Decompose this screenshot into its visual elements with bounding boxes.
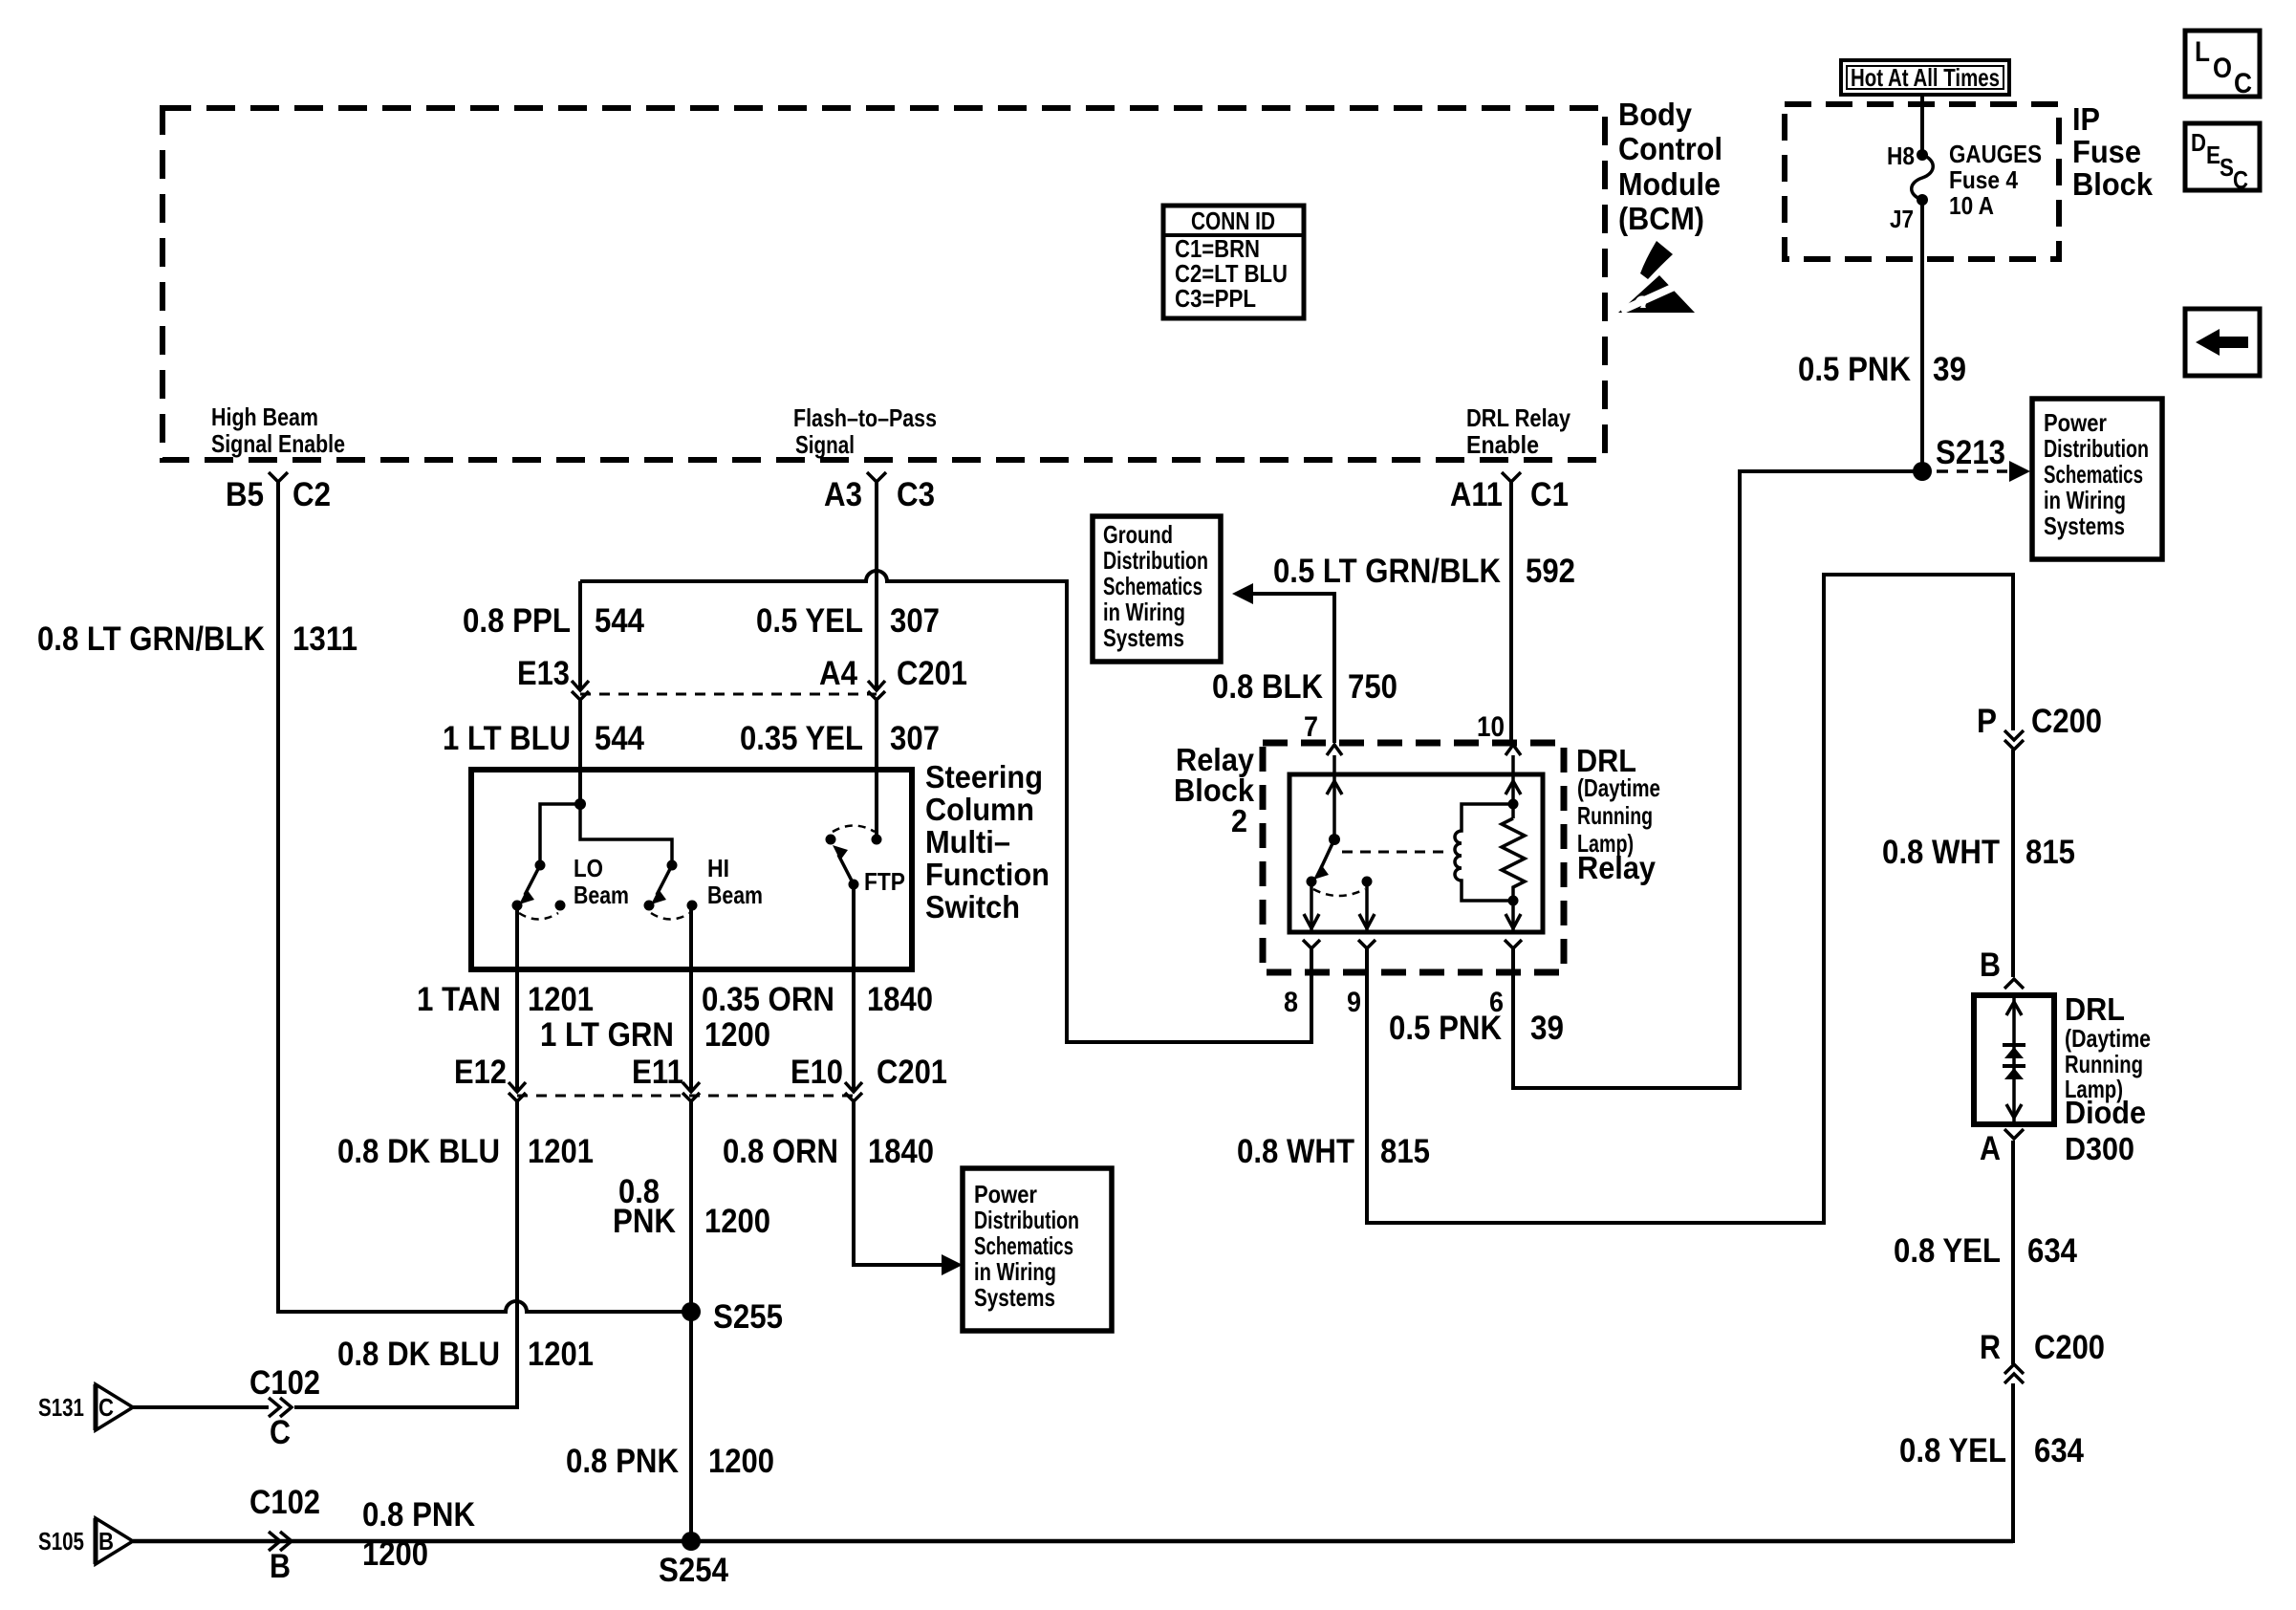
svg-text:1200: 1200 <box>362 1535 428 1573</box>
svg-text:0.35 ORN: 0.35 ORN <box>702 981 834 1018</box>
svg-text:1200: 1200 <box>704 1203 770 1240</box>
label 0.35 ORN 1840 <box>702 981 933 1018</box>
wire 0.8 PPL 544 (to E13) <box>578 581 582 690</box>
svg-text:S213: S213 <box>1936 434 2005 471</box>
svg-text:B: B <box>98 1527 114 1556</box>
label DRL (Daytime Running Lamp) Relay <box>1576 743 1660 885</box>
svg-text:1 LT GRN: 1 LT GRN <box>540 1016 674 1054</box>
wire steering column feed (y608 horizontal to relay pin 8) <box>580 571 1313 1042</box>
svg-text:C102: C102 <box>249 1484 320 1521</box>
svg-text:Function: Function <box>925 857 1050 892</box>
wire 0.5 PNK 39 (fuse to S213) <box>1920 200 1924 471</box>
label IP Fuse Block <box>2072 101 2154 202</box>
svg-text:634: 634 <box>2027 1232 2077 1270</box>
label 0.8 WHT 815 (left) <box>1237 1133 1430 1170</box>
svg-text:544: 544 <box>595 602 644 640</box>
svg-text:A11: A11 <box>1450 476 1503 513</box>
svg-text:0.8 YEL: 0.8 YEL <box>1894 1232 2001 1270</box>
svg-text:C: C <box>270 1414 291 1451</box>
switch HI Beam <box>580 804 763 920</box>
svg-text:E12: E12 <box>454 1054 507 1091</box>
svg-text:LO: LO <box>574 854 603 882</box>
svg-text:DRL: DRL <box>2065 991 2125 1027</box>
svg-text:(BCM): (BCM) <box>1618 201 1704 236</box>
pin 7 <box>1304 711 1342 755</box>
svg-text:1840: 1840 <box>868 1133 934 1170</box>
svg-text:0.8 YEL: 0.8 YEL <box>1899 1432 2006 1469</box>
connector P C200 <box>1977 703 2102 750</box>
svg-text:Body: Body <box>1618 97 1693 132</box>
svg-text:Multi–: Multi– <box>925 824 1010 859</box>
label 0.8 BLK 750 <box>1212 668 1397 706</box>
label 0.8 WHT 815 (right) <box>1882 834 2075 871</box>
connector B5 C2 <box>226 472 331 513</box>
svg-text:0.8 DK BLU: 0.8 DK BLU <box>337 1133 500 1170</box>
connector A3 C3 <box>824 472 935 513</box>
wire 0.8 LT GRN/BLK 1311 (B5 to S255) <box>278 482 682 1312</box>
svg-text:1840: 1840 <box>867 981 933 1018</box>
svg-text:750: 750 <box>1348 668 1397 706</box>
svg-text:C200: C200 <box>2031 703 2102 740</box>
svg-text:1200: 1200 <box>704 1016 770 1054</box>
svg-text:B: B <box>1980 946 2001 984</box>
connector R C200 <box>1980 1329 2105 1383</box>
wire 0.8 YEL 634 (A to R C200) <box>2011 1141 2015 1364</box>
wire 0.8 YEL 634 (C200 to main feed) <box>2011 1383 2015 1543</box>
svg-text:C: C <box>2234 68 2252 99</box>
switch LO Beam <box>512 798 630 920</box>
svg-text:C200: C200 <box>2034 1329 2105 1366</box>
svg-text:0.5 LT GRN/BLK: 0.5 LT GRN/BLK <box>1273 553 1501 590</box>
wire 0.8 WHT 815 (P to diode B) <box>2011 750 2015 977</box>
svg-text:39: 39 <box>1933 351 1966 388</box>
svg-text:Distribution: Distribution <box>974 1206 1079 1234</box>
svg-text:8: 8 <box>1284 987 1298 1018</box>
wire 0.8 PNK 1200 (E11 to S255) <box>689 1101 693 1312</box>
svg-text:S105: S105 <box>38 1527 84 1556</box>
svg-text:C3=PPL: C3=PPL <box>1175 284 1256 313</box>
svg-text:E: E <box>2206 141 2220 169</box>
connector C102 B <box>249 1484 320 1585</box>
relay pin 8 <box>1284 881 1320 1018</box>
svg-text:HI: HI <box>707 854 729 882</box>
svg-text:C: C <box>98 1393 114 1422</box>
svg-text:Power: Power <box>974 1180 1037 1208</box>
wire 0.8 ORN 1840 (E10 to power distribution) <box>854 1101 942 1265</box>
svg-text:Systems: Systems <box>1103 623 1184 652</box>
svg-text:Schematics: Schematics <box>2044 460 2143 489</box>
relay block dashed box <box>1263 743 1564 972</box>
svg-text:E10: E10 <box>791 1054 843 1091</box>
DRL diode D300 box <box>1974 995 2054 1124</box>
svg-text:S: S <box>2220 153 2234 182</box>
svg-text:Systems: Systems <box>2044 511 2125 540</box>
connector row C201 (E12 / E11 / E10) <box>454 1054 947 1101</box>
svg-text:B5: B5 <box>226 476 264 513</box>
label 0.8 DK BLU 1201 (second) <box>337 1336 594 1373</box>
svg-text:10: 10 <box>1477 711 1505 743</box>
wire 0.5 YEL 307 (A3 to C201) <box>875 482 878 690</box>
svg-text:Systems: Systems <box>974 1283 1055 1312</box>
wire C102 to S131 <box>133 1405 269 1409</box>
pin 10 <box>1477 711 1521 755</box>
svg-text:1201: 1201 <box>528 1133 594 1170</box>
svg-text:Steering: Steering <box>925 759 1043 794</box>
relay resistor <box>1502 755 1525 932</box>
terminal B <box>1980 946 2024 989</box>
label 0.8 ORN 1840 <box>723 1133 934 1170</box>
node Flash-to-Pass Signal <box>793 403 937 459</box>
svg-text:1311: 1311 <box>292 620 357 658</box>
svg-text:Schematics: Schematics <box>1103 572 1202 600</box>
svg-text:C2: C2 <box>292 476 331 513</box>
svg-text:0.35 YEL: 0.35 YEL <box>740 720 863 757</box>
svg-text:Column: Column <box>925 792 1034 827</box>
svg-text:2: 2 <box>1231 803 1247 838</box>
svg-text:0.8 LT GRN/BLK: 0.8 LT GRN/BLK <box>37 620 265 658</box>
svg-text:S255: S255 <box>713 1298 783 1336</box>
label 0.8 DK BLU 1201 <box>337 1133 594 1170</box>
dashed arrow S213 to power distribution <box>1937 461 2030 482</box>
relay pin 9 <box>1347 881 1375 1018</box>
svg-text:Schematics: Schematics <box>974 1231 1073 1260</box>
wire fuse feed <box>1920 95 1924 155</box>
connector A11 C1 <box>1450 472 1569 513</box>
Power Distribution Schematics box (middle) <box>963 1168 1112 1331</box>
svg-text:Fuse 4: Fuse 4 <box>1949 165 2018 194</box>
svg-text:R: R <box>1980 1329 2001 1366</box>
svg-text:0.8 WHT: 0.8 WHT <box>1237 1133 1354 1170</box>
junction S254 <box>659 1532 728 1589</box>
svg-text:Relay: Relay <box>1577 850 1657 885</box>
label Body Control Module (BCM) <box>1618 97 1722 236</box>
svg-text:Beam: Beam <box>574 881 629 909</box>
svg-text:in Wiring: in Wiring <box>974 1257 1056 1286</box>
relay switch <box>1307 755 1446 896</box>
svg-text:634: 634 <box>2034 1432 2084 1469</box>
svg-text:Module: Module <box>1618 166 1721 202</box>
DRL relay inner box <box>1289 774 1543 932</box>
svg-text:544: 544 <box>595 720 644 757</box>
svg-text:L: L <box>2195 36 2210 68</box>
svg-text:7: 7 <box>1304 711 1318 743</box>
svg-text:0.8 WHT: 0.8 WHT <box>1882 834 2000 871</box>
svg-text:IP: IP <box>2072 101 2100 137</box>
label 0.8 PPL 544 <box>463 602 644 640</box>
label 0.8 YEL 634 (upper) <box>1894 1232 2077 1270</box>
svg-text:0.5 PNK: 0.5 PNK <box>1389 1010 1502 1047</box>
CONN ID table <box>1163 206 1304 318</box>
svg-text:C: C <box>2233 165 2248 194</box>
svg-text:Switch: Switch <box>925 889 1020 925</box>
svg-text:S254: S254 <box>659 1552 728 1589</box>
svg-text:Diode: Diode <box>2065 1095 2146 1130</box>
svg-text:Enable: Enable <box>1466 430 1539 459</box>
svg-text:C201: C201 <box>877 1054 947 1091</box>
fuse GAUGES Fuse 4 10 A <box>1887 140 2042 233</box>
ESD warning symbol <box>1618 241 1695 313</box>
svg-text:in Wiring: in Wiring <box>2044 486 2126 514</box>
label 0.8 YEL 634 (lower) <box>1899 1432 2084 1469</box>
label DRL (Daytime Running Lamp) Diode D300 <box>2065 991 2151 1166</box>
back arrow box <box>2185 309 2260 376</box>
svg-text:1200: 1200 <box>708 1443 774 1480</box>
wire 0.5 PNK 39 (pin 6 to S213) <box>1513 471 1914 1088</box>
svg-text:0.8 PNK: 0.8 PNK <box>362 1496 475 1534</box>
connector C102 C <box>249 1364 320 1451</box>
label 1 LT GRN 1200 <box>540 1016 770 1054</box>
svg-text:Ground: Ground <box>1103 520 1173 549</box>
svg-text:C102: C102 <box>249 1364 320 1402</box>
node DRL Relay Enable <box>1466 403 1570 459</box>
wire 1 LT GRN 1200 (HI beam out) <box>689 905 693 1092</box>
svg-text:DRL Relay: DRL Relay <box>1466 403 1570 432</box>
IP fuse block dashed box <box>1785 104 2059 259</box>
label 0.8 LT GRN/BLK 1311 <box>37 620 357 658</box>
svg-text:0.8 BLK: 0.8 BLK <box>1212 668 1323 706</box>
junction S213 <box>1913 434 2005 481</box>
svg-text:Running: Running <box>1577 801 1653 830</box>
svg-text:815: 815 <box>1380 1133 1430 1170</box>
svg-text:0.8 PPL: 0.8 PPL <box>463 602 571 640</box>
svg-text:9: 9 <box>1347 987 1361 1018</box>
label 0.5 YEL 307 <box>756 602 940 640</box>
svg-text:39: 39 <box>1530 1010 1564 1047</box>
svg-text:0.8 DK BLU: 0.8 DK BLU <box>337 1336 500 1373</box>
svg-text:A4: A4 <box>819 655 857 692</box>
svg-text:307: 307 <box>890 720 940 757</box>
wire 0.8 PNK 1200 (S255 to S254) <box>689 1312 693 1541</box>
svg-text:CONN ID: CONN ID <box>1191 207 1275 235</box>
steering column multi-function switch box <box>471 770 912 969</box>
svg-text:1 LT BLU: 1 LT BLU <box>443 720 571 757</box>
label 0.8 PNK 1200 (main feed) <box>362 1496 475 1573</box>
svg-text:592: 592 <box>1526 553 1575 590</box>
svg-text:Distribution: Distribution <box>1103 546 1208 575</box>
DESC box <box>2185 123 2260 194</box>
label 1 LT BLU 544 <box>443 720 644 757</box>
svg-text:O: O <box>2213 53 2232 84</box>
svg-text:A3: A3 <box>824 476 862 513</box>
wire 0.35 ORN 1840 (FTP out) <box>852 884 856 1092</box>
wire 0.8 WHT 815 (pin 9 to P C200) <box>1367 575 2013 1223</box>
label 0.5 PNK 39 (relay) <box>1389 1010 1564 1047</box>
connector row C201 (E13 / A4) <box>517 655 967 700</box>
wire 0.8 DK BLU 1201 (E12 to C102) <box>294 1101 517 1407</box>
node High Beam Signal Enable <box>211 402 345 458</box>
svg-text:High Beam: High Beam <box>211 402 318 431</box>
label 0.35 YEL 307 <box>740 720 940 757</box>
label Steering Column Multi-Function Switch <box>925 759 1050 925</box>
off-page connector S105 <box>38 1518 133 1564</box>
svg-text:in Wiring: in Wiring <box>1103 598 1185 626</box>
label Relay Block 2 <box>1174 742 1255 838</box>
svg-text:C201: C201 <box>897 655 967 692</box>
wire 0.35 YEL 307 <box>875 700 878 835</box>
svg-text:307: 307 <box>890 602 940 640</box>
svg-text:C1: C1 <box>1530 476 1569 513</box>
label 0.8 PNK 1200 (lower) <box>566 1443 774 1480</box>
svg-text:0.5 YEL: 0.5 YEL <box>756 602 863 640</box>
svg-text:Signal: Signal <box>795 430 855 459</box>
svg-text:(Daytime: (Daytime <box>1577 773 1660 802</box>
svg-text:H8: H8 <box>1887 141 1915 170</box>
svg-text:D: D <box>2191 128 2206 157</box>
svg-text:PNK: PNK <box>613 1203 676 1240</box>
svg-text:815: 815 <box>2025 834 2075 871</box>
svg-text:P: P <box>1977 703 1997 740</box>
svg-text:J7: J7 <box>1890 205 1914 233</box>
svg-text:Hot At All Times: Hot At All Times <box>1851 63 2000 92</box>
svg-text:E13: E13 <box>517 655 570 692</box>
LOC box <box>2185 31 2260 99</box>
svg-text:Fuse: Fuse <box>2072 134 2141 169</box>
terminal A <box>1980 1129 2024 1167</box>
BCM dashed box <box>162 108 1605 460</box>
svg-text:B: B <box>270 1548 291 1585</box>
svg-text:FTP: FTP <box>864 867 905 896</box>
Hot At All Times box <box>1841 60 2009 95</box>
svg-text:S131: S131 <box>38 1393 84 1422</box>
svg-text:GAUGES: GAUGES <box>1949 140 2042 168</box>
wire 0.8 BLK 750 (pin 7 to ground distribution) <box>1253 594 1334 743</box>
svg-text:1201: 1201 <box>528 981 594 1018</box>
svg-text:C3: C3 <box>897 476 935 513</box>
off-page connector S131 <box>38 1384 133 1430</box>
wire 0.5 LT GRN/BLK 592 <box>1509 482 1513 743</box>
junction S255 <box>682 1298 783 1336</box>
label 0.5 PNK 39 (fuse) <box>1798 351 1966 388</box>
label 0.5 LT GRN/BLK 592 <box>1273 553 1575 590</box>
svg-text:0.8 PNK: 0.8 PNK <box>566 1443 679 1480</box>
wire relay pin 8 stub <box>1310 948 1313 1044</box>
Ground Distribution Schematics box <box>1093 516 1221 662</box>
svg-text:Control: Control <box>1618 131 1722 166</box>
svg-text:0.5 PNK: 0.5 PNK <box>1798 351 1911 388</box>
wire 0.8 PNK 1200 (S105 main feed) <box>133 1539 2013 1544</box>
relay coil <box>1455 799 1519 906</box>
Power Distribution Schematics box (top) <box>2032 399 2162 559</box>
svg-text:D300: D300 <box>2065 1131 2134 1166</box>
svg-text:Block: Block <box>2072 166 2154 202</box>
svg-text:Flash–to–Pass: Flash–to–Pass <box>793 403 937 432</box>
svg-text:Beam: Beam <box>707 881 763 909</box>
switch FTP (flash-to-pass) <box>826 826 906 897</box>
wire 1 TAN 1201 (LO beam out) <box>515 905 519 1092</box>
svg-text:Power: Power <box>2044 408 2107 437</box>
svg-text:(Daytime: (Daytime <box>2065 1024 2151 1053</box>
svg-text:A: A <box>1980 1130 2001 1167</box>
svg-text:E11: E11 <box>632 1054 683 1091</box>
label 0.8 PNK 1200 <box>613 1173 770 1240</box>
wire 1 LT BLU 544 <box>578 700 582 804</box>
svg-text:Distribution: Distribution <box>2044 434 2149 463</box>
svg-text:0.8 ORN: 0.8 ORN <box>723 1133 838 1170</box>
label 1 TAN 1201 <box>417 981 594 1018</box>
svg-text:1201: 1201 <box>528 1336 594 1373</box>
svg-text:1 TAN: 1 TAN <box>417 981 501 1018</box>
svg-text:Signal Enable: Signal Enable <box>211 429 345 458</box>
relay pin 6 <box>1489 940 1522 1018</box>
svg-text:10 A: 10 A <box>1949 191 1994 220</box>
